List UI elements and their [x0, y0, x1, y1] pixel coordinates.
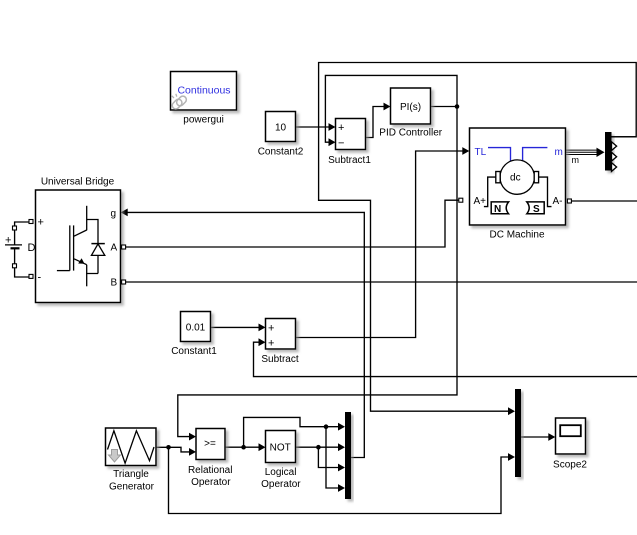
svg-text:B: B	[111, 278, 118, 289]
component: DC voltage source battery	[5, 222, 36, 277]
svg-text:0.01: 0.01	[186, 323, 206, 334]
block: Subtract	[261, 319, 298, 366]
diode bottom lead	[97, 255, 99, 273]
svg-text:Generator: Generator	[109, 481, 155, 492]
battery leads	[14, 230, 16, 245]
IGBT collector diagonal	[74, 230, 87, 236]
block: Subtract1	[328, 119, 371, 167]
wire: mux output up to Universal Bridge gate input g	[121, 209, 365, 458]
wire: armature right lead	[539, 177, 552, 207]
block: Demux	[605, 132, 636, 171]
block: Triangle Generator	[106, 428, 157, 492]
svg-text:powergui: powergui	[183, 114, 224, 125]
svg-text:Logical: Logical	[265, 467, 297, 478]
wire: Bridge A output to DC Machine A+	[126, 200, 459, 247]
svg-text:Triangle: Triangle	[113, 469, 149, 480]
node: junction on mux input 1 wire	[324, 424, 329, 429]
svg-text:S: S	[533, 204, 540, 215]
diode cathode bar	[91, 243, 104, 245]
svg-text:+: +	[38, 217, 44, 229]
wire: branch down to mux input 3	[318, 447, 345, 471]
wire: branch down to mux input 4	[326, 427, 345, 492]
wire: blue internal left	[488, 148, 511, 161]
svg-text:Relational: Relational	[188, 465, 232, 476]
icon: gray down arrow	[109, 450, 121, 463]
port: unconnected output 3	[612, 152, 617, 161]
wire: Relational output bypass over NOT to mux input 1	[244, 417, 345, 447]
block: Mux to scope	[515, 389, 521, 477]
block: Scope2	[553, 418, 587, 470]
svg-text:A+: A+	[474, 196, 487, 207]
field pole S	[527, 202, 544, 215]
diode triangle	[91, 244, 104, 256]
svg-text:PI(s): PI(s)	[400, 102, 421, 113]
wire: feedback from right edge to Subtract input 2	[254, 338, 637, 376]
svg-text:Operator: Operator	[191, 477, 231, 488]
port square A-	[567, 199, 571, 203]
field pole N	[491, 202, 508, 215]
wire: Subtract1 output to PID Controller input	[366, 103, 391, 138]
wire: Triangle Generator output to Relational Operator input 2	[156, 447, 196, 456]
wire: DC Machine A- to right edge	[571, 200, 637, 202]
port square A+	[459, 198, 463, 202]
IGBT bottom joining wire	[87, 265, 98, 274]
port: unconnected output 4	[612, 163, 617, 172]
block: PID Controller PI(s)	[379, 88, 442, 139]
battery long plate	[5, 244, 22, 246]
svg-text:TL: TL	[475, 147, 487, 158]
svg-text:+: +	[338, 122, 344, 134]
node: junction at Relational output	[241, 445, 246, 450]
wire: demux output 1	[612, 136, 636, 138]
wire: PID output down to Relational Operator input 1	[178, 107, 457, 441]
svg-text:dc: dc	[510, 173, 521, 184]
svg-text:m: m	[572, 155, 580, 165]
node: junction at NOT output	[316, 445, 321, 450]
port square B	[122, 280, 126, 284]
motor armature circle dc	[500, 160, 534, 194]
svg-text:+: +	[5, 235, 11, 247]
svg-text:DC Machine: DC Machine	[489, 230, 544, 241]
svg-text:Scope2: Scope2	[553, 459, 587, 470]
IGBT top stub	[86, 206, 88, 231]
port square battery bottom	[13, 264, 17, 268]
wire: Constant1 to Subtract input 1	[211, 324, 266, 332]
port square -	[29, 274, 33, 278]
IGBT gate lead	[57, 270, 70, 272]
wire: Bridge B output to right edge	[126, 281, 637, 283]
svg-text:+: +	[268, 323, 274, 335]
block: Relational Operator	[188, 429, 232, 489]
block: Constant1 value 0.01	[171, 312, 217, 358]
block: DC Machine	[459, 128, 572, 241]
svg-text:NOT: NOT	[270, 443, 291, 454]
port: unconnected output 2	[612, 142, 617, 151]
svg-text:Universal Bridge: Universal Bridge	[41, 177, 115, 188]
svg-text:-: -	[38, 272, 42, 284]
wire: battery top to bridge +	[15, 222, 29, 226]
port square A	[122, 245, 126, 249]
svg-text:Subtract: Subtract	[261, 354, 298, 365]
svg-text:N: N	[494, 204, 501, 215]
svg-text:Constant2: Constant2	[258, 147, 304, 158]
wire: battery bottom to bridge -	[15, 268, 29, 277]
wire: armature left lead	[484, 177, 496, 207]
svg-text:Constant1: Constant1	[171, 346, 217, 357]
wire: Relational Operator output to NOT input	[225, 443, 266, 451]
IGBT emitter diagonal with arrow	[74, 259, 87, 265]
IGBT bottom stub	[86, 274, 88, 287]
block: Mux gate signals	[345, 412, 351, 499]
wire: Triangle junction down to right mux input 2	[169, 447, 516, 513]
wire: right mux output to Scope2	[521, 433, 555, 441]
wire: DC Machine m vector output to Demux (triple line)	[566, 148, 605, 166]
wire: blue internal right	[523, 148, 548, 161]
svg-text:g: g	[111, 209, 117, 220]
wire: Constant2 to Subtract1 plus input	[296, 123, 336, 131]
node: junction at PID output	[455, 104, 460, 109]
battery short plate	[11, 247, 20, 249]
block: powergui	[171, 72, 237, 126]
svg-text:Continuous: Continuous	[177, 85, 230, 97]
svg-text:A: A	[111, 243, 118, 254]
svg-text:Subtract1: Subtract1	[328, 155, 371, 166]
svg-text:+: +	[268, 338, 274, 350]
block: Constant2 value 10	[258, 112, 304, 158]
svg-text:>=: >=	[204, 439, 216, 450]
svg-text:PID Controller: PID Controller	[379, 128, 442, 139]
wire: NOT output to mux input 2	[296, 443, 346, 451]
wire: feedback top outer (demux out1 to right mux in1)	[319, 63, 637, 416]
svg-text:m: m	[555, 147, 563, 158]
brush left	[496, 172, 500, 183]
icon: triangle waveform	[108, 431, 155, 463]
icon: broken chain link	[171, 94, 188, 111]
port square battery top	[13, 226, 17, 230]
wire: Subtract output to DC Machine TL input	[296, 147, 470, 337]
port square +	[29, 220, 33, 224]
block: Universal Bridge	[29, 177, 126, 303]
svg-text:Operator: Operator	[261, 479, 301, 490]
IGBT gate bars	[69, 225, 71, 270]
svg-text:−: −	[338, 138, 344, 150]
IGBT top branch to diode	[87, 220, 98, 244]
svg-text:A-: A-	[553, 196, 563, 207]
node: junction at Triangle Generator output	[166, 445, 171, 450]
block: Logical Operator NOT	[261, 431, 301, 491]
svg-text:D: D	[28, 242, 36, 254]
svg-text:10: 10	[275, 123, 287, 134]
brush right	[534, 172, 538, 183]
wire: PID output feedback to Subtract1 minus input	[325, 75, 457, 146]
